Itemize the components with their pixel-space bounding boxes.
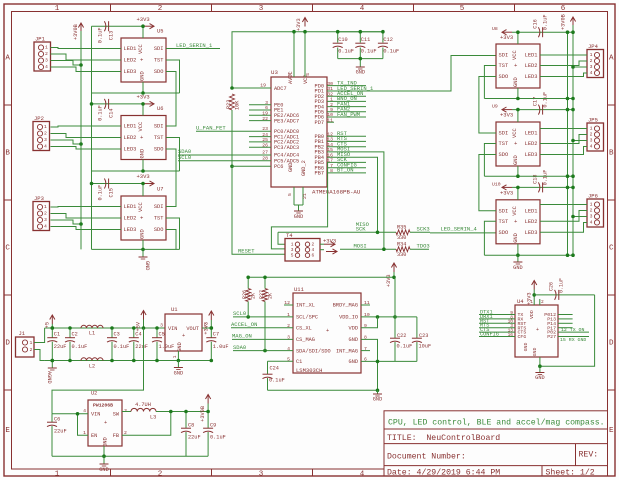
wire TST U9 to gnd line bbox=[484, 144, 496, 177]
wire buck gnd drop bbox=[103, 446, 105, 456]
wire GND line 3 bbox=[92, 248, 180, 250]
svg-text:C16: C16 bbox=[533, 19, 539, 28]
svg-text:Date: 4/29/2019 6:44 PM: Date: 4/29/2019 6:44 PM bbox=[387, 467, 500, 477]
svg-text:A: A bbox=[609, 55, 614, 63]
frame column ticks and numbers bbox=[110, 4, 112, 12]
svg-text:0.1uF: 0.1uF bbox=[543, 170, 549, 186]
wire U1 gnd bbox=[177, 351, 179, 361]
connector JP4 bbox=[587, 43, 604, 78]
svg-text:U_FAN_FET: U_FAN_FET bbox=[196, 125, 226, 132]
svg-text:SCL0: SCL0 bbox=[233, 310, 246, 317]
wire TST U10 to gnd line bbox=[484, 221, 496, 255]
wire JP pin4 bbox=[51, 147, 122, 150]
svg-text:R35: R35 bbox=[397, 225, 406, 231]
svg-text:LED2: LED2 bbox=[525, 141, 538, 147]
svg-text:SDO: SDO bbox=[499, 74, 509, 80]
svg-text:LED1: LED1 bbox=[525, 208, 538, 214]
wire rail to JP pin3 bbox=[573, 66, 587, 68]
svg-text:GND: GND bbox=[140, 229, 146, 239]
wire JP pin2 bbox=[51, 134, 122, 138]
svg-text:L1: L1 bbox=[89, 331, 95, 337]
svg-text:25: 25 bbox=[262, 137, 268, 143]
svg-text:CS_MAG: CS_MAG bbox=[296, 337, 315, 343]
svg-text:VCC: VCC bbox=[138, 44, 144, 54]
svg-text:2: 2 bbox=[30, 347, 33, 353]
svg-text:C10: C10 bbox=[338, 37, 347, 43]
wire BLE CONFIG bbox=[479, 336, 515, 338]
buck regulator U2 PW1206B bbox=[83, 391, 127, 447]
svg-text:1: 1 bbox=[55, 5, 60, 13]
svg-text:3: 3 bbox=[259, 5, 264, 13]
svg-text:A: A bbox=[5, 55, 10, 63]
wire TST U7 to gnd line bbox=[166, 218, 180, 249]
wire BLE TX_IND bbox=[558, 336, 589, 338]
wire GND drop U5 bbox=[142, 82, 144, 93]
svg-text:SDA0: SDA0 bbox=[233, 344, 246, 351]
svg-text:L3: L3 bbox=[150, 415, 156, 421]
svg-text:3: 3 bbox=[160, 323, 163, 329]
LED driver U9 bbox=[496, 122, 540, 166]
svg-text:2: 2 bbox=[158, 5, 163, 13]
svg-text:+5: +5 bbox=[45, 322, 51, 328]
wire cap feed vertical bbox=[91, 26, 93, 249]
net label TDO3 bbox=[410, 248, 429, 250]
svg-text:3: 3 bbox=[44, 217, 47, 223]
svg-text:VDD: VDD bbox=[529, 310, 535, 319]
+3V3 supply arrow BLE bbox=[527, 281, 537, 306]
+3V3 supply arrow C16 line bbox=[492, 26, 513, 41]
svg-text:C2: C2 bbox=[72, 332, 78, 338]
svg-text:+3V0B: +3V0B bbox=[561, 14, 567, 30]
wire INT_XL stub bbox=[284, 304, 293, 306]
wire BLE CTS bbox=[479, 331, 515, 333]
capacitor C26 0.1uF bbox=[549, 278, 565, 300]
svg-text:JP2: JP2 bbox=[34, 115, 44, 122]
svg-text:BRDY_MAG: BRDY_MAG bbox=[333, 303, 358, 309]
wire SCK loop bbox=[271, 162, 327, 249]
svg-text:2: 2 bbox=[44, 211, 47, 217]
svg-text:+3V0B: +3V0B bbox=[73, 24, 79, 40]
svg-text:U6: U6 bbox=[157, 106, 163, 112]
svg-text:+3V3: +3V3 bbox=[500, 189, 513, 196]
LED driver U6 bbox=[121, 106, 166, 160]
svg-text:22uF: 22uF bbox=[188, 435, 201, 441]
ground symbol BNO bbox=[373, 390, 382, 402]
svg-text:CFG: CFG bbox=[518, 334, 527, 340]
wire BLE VDD drop bbox=[533, 290, 535, 306]
svg-text:U4: U4 bbox=[517, 298, 524, 305]
svg-text:SW: SW bbox=[113, 412, 120, 418]
net label LED_SERIN_4 bbox=[430, 232, 496, 234]
capacitor C23 10uF bbox=[412, 317, 431, 362]
svg-text:LED3: LED3 bbox=[525, 230, 538, 236]
wire right GND line bbox=[484, 98, 573, 100]
svg-text:1: 1 bbox=[530, 299, 533, 305]
connector JP2 bbox=[33, 115, 50, 151]
svg-text:SDO: SDO bbox=[154, 227, 164, 233]
svg-text:1: 1 bbox=[55, 471, 60, 479]
svg-text:1.0uF: 1.0uF bbox=[159, 344, 175, 350]
capacitor C8 22uF bbox=[181, 412, 201, 457]
wire right GND drop bbox=[517, 244, 519, 255]
svg-text:REV:: REV: bbox=[579, 451, 599, 460]
svg-text:LED1: LED1 bbox=[525, 53, 538, 59]
svg-text:JP3: JP3 bbox=[34, 195, 44, 202]
svg-text:LED1: LED1 bbox=[124, 46, 137, 52]
ground symbol right chain bbox=[513, 255, 522, 271]
capacitor C10 0.1uF bbox=[333, 32, 354, 59]
wire LED2 to JP pin2 bbox=[540, 135, 587, 144]
wire TST U5 to gnd line bbox=[166, 60, 180, 93]
+3V3 supply arrow T4 pin4 bbox=[320, 249, 337, 254]
svg-text:LED3: LED3 bbox=[525, 152, 538, 158]
wire PB4 MISO bbox=[327, 156, 366, 158]
capacitor C22 0.1uF bbox=[390, 317, 412, 362]
svg-text:TST: TST bbox=[154, 135, 164, 141]
svg-text:LED3: LED3 bbox=[525, 74, 538, 80]
svg-text:SDO: SDO bbox=[499, 152, 509, 158]
svg-text:+3V3: +3V3 bbox=[386, 275, 392, 288]
svg-text:VCC: VCC bbox=[138, 202, 144, 212]
wire PD3 BNO_ON bbox=[327, 100, 366, 102]
svg-text:GND: GND bbox=[288, 163, 294, 172]
wire SDA0 to U11 bbox=[233, 350, 293, 352]
+3V3 supply arrow C18 line bbox=[492, 181, 513, 196]
svg-text:LED2: LED2 bbox=[124, 58, 137, 64]
wire VCC drop C17 bbox=[517, 110, 519, 122]
svg-text:0.1uF: 0.1uF bbox=[543, 14, 549, 30]
wire PB6 CONFIG bbox=[327, 167, 366, 169]
wire BLE BT_ON bbox=[558, 331, 589, 333]
capacitor C9 0.1uF bbox=[203, 412, 226, 457]
svg-text:6: 6 bbox=[561, 5, 566, 13]
svg-text:0.1uF: 0.1uF bbox=[210, 435, 226, 441]
svg-text:330: 330 bbox=[397, 235, 406, 241]
svg-text:4: 4 bbox=[45, 64, 48, 70]
svg-text:C11: C11 bbox=[361, 37, 370, 43]
svg-text:GND: GND bbox=[523, 343, 529, 352]
svg-text:4.7UH: 4.7UH bbox=[135, 402, 151, 408]
svg-text:VCC: VCC bbox=[512, 128, 518, 138]
svg-text:5: 5 bbox=[287, 193, 293, 196]
wire VCC drop U5 bbox=[142, 26, 144, 38]
svg-text:2K: 2K bbox=[267, 293, 273, 299]
wire rail drop to VDD_IO bbox=[394, 277, 396, 317]
svg-text:19: 19 bbox=[260, 83, 266, 89]
svg-text:5: 5 bbox=[460, 5, 465, 13]
svg-text:330: 330 bbox=[397, 252, 406, 258]
svg-text:5: 5 bbox=[291, 253, 294, 259]
svg-text:1: 1 bbox=[30, 340, 33, 346]
wire MISO row to R35 bbox=[278, 231, 396, 233]
wire MISO down bbox=[366, 157, 378, 232]
wire BRDY stub bbox=[361, 304, 370, 306]
svg-text:0.1uF: 0.1uF bbox=[269, 378, 285, 384]
capacitor C17 0.1uF bbox=[533, 92, 549, 115]
svg-text:27: 27 bbox=[262, 150, 268, 156]
wire PB3 MOSI bbox=[327, 151, 366, 153]
svg-text:3: 3 bbox=[590, 214, 593, 220]
svg-text:0.1uF: 0.1uF bbox=[383, 49, 399, 55]
+3V3 supply arrow BNO rail bbox=[386, 263, 397, 287]
wire BNO pullup rail bbox=[248, 276, 394, 278]
svg-text:4: 4 bbox=[590, 220, 593, 226]
wire right GND line bbox=[484, 254, 573, 256]
svg-text:GND: GND bbox=[513, 265, 522, 271]
svg-text:Document Number:: Document Number: bbox=[387, 452, 466, 462]
wire PB0 RST bbox=[327, 135, 366, 137]
svg-text:2: 2 bbox=[330, 102, 333, 108]
wire PD4 FAN1 bbox=[327, 106, 366, 108]
wire JP pin3 to rail bbox=[51, 61, 82, 66]
svg-text:PC6: PC6 bbox=[274, 164, 283, 170]
svg-text:0.1uF: 0.1uF bbox=[114, 344, 130, 350]
wire PB1 RTS bbox=[327, 140, 366, 142]
wire BLE right stubs bbox=[558, 314, 573, 316]
svg-text:30: 30 bbox=[327, 81, 333, 87]
svg-text:2: 2 bbox=[590, 58, 593, 64]
wire TST U6 to gnd line bbox=[166, 138, 180, 172]
wire VOUT to +3V3 bbox=[202, 327, 211, 329]
wire JP pin1 bbox=[51, 206, 122, 209]
svg-text:JP5: JP5 bbox=[588, 117, 598, 124]
wire PB2 CTS bbox=[327, 146, 366, 148]
svg-text:LED3: LED3 bbox=[124, 69, 137, 75]
wire PD6 FAN_PWM bbox=[327, 116, 366, 118]
svg-text:1: 1 bbox=[590, 52, 593, 58]
svg-text:GND: GND bbox=[513, 155, 519, 165]
svg-text:CONFIG: CONFIG bbox=[480, 332, 499, 338]
ground symbol left chain bbox=[139, 249, 150, 270]
wire ADC7 row bbox=[232, 87, 271, 89]
wire +3V0B rail bbox=[80, 31, 82, 249]
svg-text:LED_SERIN_1: LED_SERIN_1 bbox=[176, 42, 213, 49]
svg-text:16: 16 bbox=[508, 332, 514, 338]
wire right rail A bbox=[567, 32, 569, 255]
svg-text:VOUT: VOUT bbox=[186, 326, 199, 332]
svg-text:GND: GND bbox=[140, 71, 146, 81]
LED driver U10 bbox=[496, 200, 540, 244]
svg-text:VDD_IO: VDD_IO bbox=[339, 315, 358, 321]
svg-text:LED2: LED2 bbox=[124, 216, 137, 222]
svg-text:10uF: 10uF bbox=[419, 344, 432, 350]
svg-text:D: D bbox=[5, 340, 10, 348]
svg-text:+3V3: +3V3 bbox=[500, 34, 513, 41]
wire SDO U8 to SDI U9 bbox=[479, 77, 496, 134]
wire GND line 1 bbox=[92, 92, 180, 94]
resistor R23 10K bbox=[226, 94, 241, 110]
wire PC6 row bbox=[232, 165, 271, 167]
svg-text:3: 3 bbox=[590, 64, 593, 70]
wire PD5 FAN2 bbox=[327, 111, 366, 113]
svg-text:U2: U2 bbox=[91, 391, 97, 397]
capacitor C24 0.1uF bbox=[263, 361, 294, 390]
svg-text:0.1uF: 0.1uF bbox=[72, 344, 88, 350]
wire JP pin1 bbox=[51, 126, 122, 127]
wire JP pin4 bbox=[51, 227, 122, 230]
svg-text:R23: R23 bbox=[226, 100, 232, 109]
svg-text:17: 17 bbox=[327, 158, 333, 164]
svg-text:TST: TST bbox=[499, 141, 509, 147]
bluetooth module U4 bbox=[515, 298, 558, 357]
wire LED3 to JP pin4 bbox=[540, 147, 587, 155]
wire JP pin4 bbox=[51, 67, 122, 72]
svg-text:D: D bbox=[609, 340, 614, 348]
svg-text:VIN: VIN bbox=[91, 412, 100, 418]
frame row ticks and letters bbox=[4, 104, 12, 106]
svg-text:GND: GND bbox=[532, 348, 538, 357]
svg-text:11: 11 bbox=[327, 117, 333, 123]
wire power bottom rail bbox=[45, 360, 212, 362]
svg-text:C5: C5 bbox=[159, 332, 165, 338]
net label SDA0 at U3 bbox=[178, 154, 271, 156]
svg-text:R26: R26 bbox=[242, 290, 248, 299]
+3V3 supply arrow U1 out bbox=[204, 311, 214, 335]
svg-text:4: 4 bbox=[83, 408, 86, 414]
wire cap bottom rail bbox=[338, 58, 383, 60]
wire TST U8 to gnd line bbox=[484, 66, 496, 99]
connector JP1 bbox=[34, 36, 51, 72]
svg-text:GND: GND bbox=[144, 261, 150, 270]
svg-text:SDO: SDO bbox=[154, 69, 164, 75]
capacitor C2 0.1uF bbox=[65, 328, 87, 361]
connector T4 ISP header bbox=[285, 232, 320, 261]
svg-text:SCK3: SCK3 bbox=[417, 226, 430, 233]
wire VCC drop U7 bbox=[142, 184, 144, 197]
wire SDO U6 to SDI U7 bbox=[166, 149, 176, 207]
svg-text:12: 12 bbox=[327, 131, 333, 137]
wire BLE DTX1 bbox=[479, 314, 515, 316]
svg-text:J1: J1 bbox=[19, 330, 26, 337]
wire GND drop U7 bbox=[142, 240, 144, 249]
svg-text:P27: P27 bbox=[547, 334, 556, 340]
wire BLE RTS bbox=[479, 327, 515, 329]
svg-text:C22: C22 bbox=[397, 333, 406, 339]
ground symbol U3 bbox=[287, 187, 308, 220]
op-amp U3 ATMEGA168PB-AU main box bbox=[271, 69, 361, 196]
svg-text:FAN_PWM: FAN_PWM bbox=[337, 111, 360, 118]
svg-text:19: 19 bbox=[262, 111, 268, 117]
svg-text:C9: C9 bbox=[210, 423, 216, 429]
wire cap top rail bbox=[338, 31, 383, 33]
svg-text:2: 2 bbox=[45, 51, 48, 57]
svg-text:SDI: SDI bbox=[154, 124, 164, 130]
svg-text:GND: GND bbox=[140, 149, 146, 159]
svg-text:GND: GND bbox=[103, 437, 109, 446]
svg-text:32: 32 bbox=[327, 91, 333, 97]
+5V supply arrow bbox=[136, 311, 147, 332]
wire GND drop U6 bbox=[142, 160, 144, 172]
wire VDD tie bbox=[361, 317, 378, 328]
svg-text:4: 4 bbox=[590, 70, 593, 76]
svg-text:GND: GND bbox=[174, 371, 183, 377]
svg-text:+5V: +5V bbox=[136, 321, 142, 331]
svg-text:1: 1 bbox=[172, 355, 178, 358]
connector JP5 bbox=[587, 117, 604, 152]
svg-text:GND: GND bbox=[356, 70, 365, 76]
svg-text:C13: C13 bbox=[109, 31, 115, 40]
wire EN tie bbox=[78, 414, 89, 435]
ground symbol U1 bbox=[174, 361, 183, 377]
wire LED_SERIN_1 to right boxes bbox=[366, 56, 496, 92]
wire +3V3 line C16 bbox=[512, 31, 573, 33]
svg-text:0.1uF: 0.1uF bbox=[397, 344, 413, 350]
svg-text:C1: C1 bbox=[54, 332, 60, 338]
svg-text:VCC: VCC bbox=[512, 50, 518, 60]
svg-text:VCC: VCC bbox=[138, 122, 144, 132]
wire SDO U5 to SDI U6 bbox=[166, 72, 176, 127]
svg-text:GND: GND bbox=[177, 342, 183, 351]
svg-text:GND: GND bbox=[294, 214, 303, 220]
ground symbol AGND bbox=[46, 361, 57, 384]
svg-text:B: B bbox=[609, 150, 614, 158]
svg-text:SDI: SDI bbox=[499, 53, 509, 59]
wire +3V3 line for C15 bbox=[92, 183, 144, 185]
svg-text:2: 2 bbox=[312, 242, 315, 248]
net label LED_SERIN_1 bbox=[166, 48, 220, 50]
svg-text:EN: EN bbox=[91, 433, 97, 439]
capacitor C5 1.0uF bbox=[152, 328, 174, 361]
svg-text:1: 1 bbox=[590, 126, 593, 132]
wire GND6 row bbox=[361, 360, 417, 362]
wire GND8 down bbox=[361, 339, 378, 390]
accelerometer U11 LSM303CH box bbox=[284, 286, 370, 374]
wire PC stub 26 bbox=[249, 146, 271, 148]
svg-text:4: 4 bbox=[360, 5, 365, 13]
wire LED1 to JP pin1 bbox=[540, 128, 587, 130]
svg-text:2: 2 bbox=[158, 471, 163, 479]
inductor L2 bbox=[81, 358, 103, 370]
svg-text:3: 3 bbox=[45, 58, 48, 64]
regulator U1 bbox=[160, 306, 207, 358]
LED driver U5 bbox=[121, 29, 166, 83]
wire LED2 to JP pin2 bbox=[540, 211, 587, 222]
svg-text:3: 3 bbox=[291, 247, 294, 253]
wire +3V3 rail above U3 bbox=[270, 31, 383, 33]
svg-text:PC3/ADC3: PC3/ADC3 bbox=[274, 145, 299, 151]
wire PE stub 3 bbox=[249, 104, 271, 106]
svg-text:18: 18 bbox=[287, 73, 293, 79]
svg-text:26: 26 bbox=[262, 142, 268, 148]
svg-text:SDI: SDI bbox=[154, 46, 164, 52]
svg-text:GND_2: GND_2 bbox=[301, 160, 307, 176]
wire +3V3 line for C13 bbox=[92, 25, 144, 27]
svg-text:15: 15 bbox=[327, 147, 333, 153]
resistor R27 2K bbox=[259, 289, 274, 302]
svg-text:C26: C26 bbox=[549, 282, 555, 291]
svg-text:C1: C1 bbox=[296, 359, 302, 365]
svg-text:22uF: 22uF bbox=[54, 344, 67, 350]
wire VCC drop U6 bbox=[142, 104, 144, 116]
svg-text:E: E bbox=[609, 427, 614, 435]
svg-text:6: 6 bbox=[312, 253, 315, 259]
svg-text:2: 2 bbox=[590, 132, 593, 138]
svg-text:4: 4 bbox=[44, 224, 47, 230]
svg-text:TITLE: NeuControlBoard: TITLE: NeuControlBoard bbox=[387, 433, 500, 443]
wire buck VIN rail bbox=[52, 413, 88, 415]
capacitor C14 0.1uF bbox=[98, 99, 115, 121]
svg-text:U8: U8 bbox=[492, 26, 498, 32]
svg-text:+3V3: +3V3 bbox=[137, 16, 150, 23]
wire rail to JP pin3 bbox=[573, 216, 587, 218]
svg-text:22uF: 22uF bbox=[54, 429, 67, 435]
+3V3 supply arrow above U3 bbox=[296, 18, 308, 32]
wire BLE cap line bbox=[534, 294, 594, 296]
capacitor C16 0.1uF bbox=[533, 14, 549, 37]
+3V0B supply arrow buck out bbox=[200, 395, 211, 422]
svg-text:12 TX ON: 12 TX ON bbox=[561, 327, 584, 333]
inductor L1 bbox=[81, 325, 103, 336]
